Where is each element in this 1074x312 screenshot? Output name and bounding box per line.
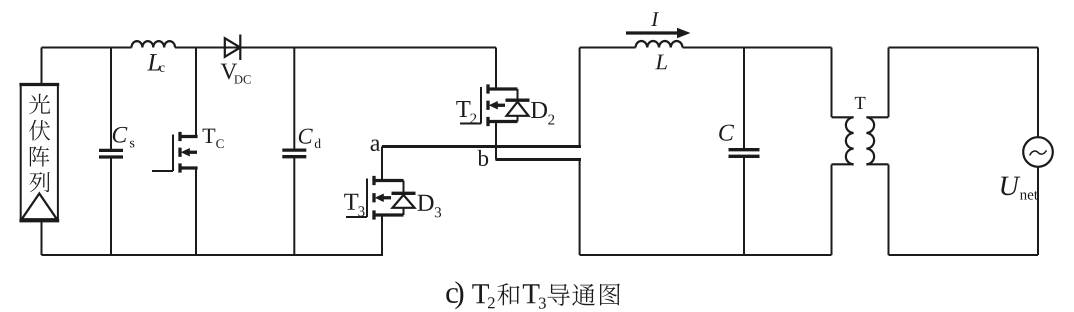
label D3 <box>417 195 433 211</box>
T2 gate line <box>480 87 482 124</box>
label T2 <box>456 101 470 117</box>
TC gate line <box>172 135 174 172</box>
T2 gate lead <box>460 123 481 125</box>
T3 body arrow <box>383 196 391 199</box>
AC source Unet circle <box>1023 137 1053 167</box>
TC drain wire <box>195 48 197 137</box>
T2 body arrow <box>497 104 505 107</box>
T3 channel bars <box>372 176 375 220</box>
diode VDC <box>225 38 241 57</box>
label Cd <box>299 129 313 144</box>
T3 drain wire <box>381 147 383 181</box>
capacitor C <box>743 48 745 256</box>
wire: source leads <box>1037 48 1039 256</box>
label I <box>651 12 659 26</box>
node a bus line <box>382 145 581 148</box>
T2 source wire <box>495 122 497 160</box>
label Lc <box>147 54 160 70</box>
label C <box>719 125 734 141</box>
T2 drain wire <box>495 48 497 90</box>
wire: PV box top lead <box>41 48 43 85</box>
node b label <box>478 150 489 166</box>
label Unet <box>1001 177 1020 196</box>
wire: vertical from node b to bottom rail <box>579 161 581 255</box>
TC gate lead <box>152 170 173 172</box>
wire: vertical from top rail to node a <box>579 48 581 146</box>
T3 source wire <box>381 215 383 255</box>
label TC <box>203 129 216 143</box>
capacitor Cd <box>293 48 295 256</box>
PV box label 光伏阵列 <box>29 94 50 115</box>
PV box triangle <box>22 194 57 220</box>
wire: right loop bottom rail <box>889 254 1039 256</box>
wire: middle section bottom rail <box>580 254 832 256</box>
sine symbol <box>1030 150 1047 155</box>
PV array box thick top and bottom edges <box>19 85 59 221</box>
label VDC <box>221 64 237 80</box>
T3 gate line <box>366 179 368 218</box>
capacitor Cs <box>110 48 112 256</box>
transformer secondary wires <box>888 48 890 256</box>
wire: bottom rail left section <box>42 254 384 256</box>
label T3 <box>344 194 358 210</box>
wire: top rail left section <box>42 47 497 49</box>
T3 gate lead <box>346 216 367 218</box>
label Cs <box>113 127 128 143</box>
caption c) T2和T3导通图 <box>446 288 458 303</box>
transformer secondary stubs <box>866 117 888 164</box>
label D2 <box>531 102 547 118</box>
wire: middle section top rail <box>580 47 832 49</box>
transformer T primary wires <box>831 48 833 256</box>
transformer primary stubs <box>832 117 854 164</box>
label T <box>855 97 866 109</box>
TC source wire <box>195 168 197 255</box>
inductor Lc <box>132 41 176 47</box>
TC body arrow <box>189 151 197 154</box>
D2 triangle <box>507 102 529 116</box>
transformer primary coil <box>846 117 854 164</box>
node b bus line <box>496 158 582 161</box>
T2 drain/source leads <box>488 89 518 122</box>
D2 cathode bar <box>506 99 530 102</box>
T3 drain/source leads <box>374 181 404 216</box>
PV array box sides <box>21 85 58 221</box>
TC drain/source leads <box>180 137 198 169</box>
TC channel bars <box>178 132 181 173</box>
transformer secondary coil <box>866 117 874 164</box>
wire: PV box bottom lead <box>41 222 43 255</box>
inductor L <box>636 41 683 48</box>
T2 channel bars <box>486 84 489 126</box>
node a label <box>371 140 380 151</box>
D3 cathode bar <box>392 192 416 195</box>
D2 connections <box>517 89 519 122</box>
wire: right loop top rail <box>889 47 1039 49</box>
D3 connections <box>403 181 405 216</box>
current arrow I <box>626 31 678 34</box>
D3 triangle <box>393 195 415 208</box>
label L <box>655 55 667 70</box>
